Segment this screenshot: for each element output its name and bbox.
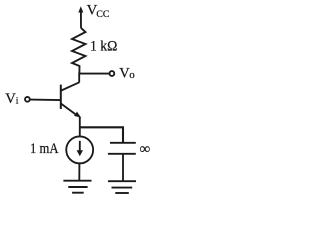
transistor Q1 emitter arrowhead: [74, 112, 81, 118]
ground right line2: [112, 187, 133, 189]
current source I1 circle: [66, 136, 93, 163]
svg-text:CC: CC: [96, 9, 109, 20]
wire capacitor to ground: [122, 154, 124, 181]
ground left line1: [63, 180, 91, 182]
terminal Vi open circle: [25, 97, 30, 102]
terminal Vo open circle: [110, 71, 115, 76]
ground left line2: [68, 186, 87, 188]
resistor R (1 kOhm) zigzag: [72, 28, 86, 66]
wire collector node to Vo terminal: [79, 73, 109, 75]
svg-text:∞: ∞: [140, 141, 151, 158]
wire emitter node to capacitor: [79, 127, 123, 143]
wire emitter vertical to current source: [79, 117, 81, 136]
transistor Q1 base bar: [60, 85, 62, 109]
ground right line3: [115, 192, 129, 194]
svg-text:V: V: [5, 91, 16, 107]
svg-text:i: i: [16, 96, 19, 107]
wire resistor bottom to collector node: [78, 65, 80, 73]
svg-text:o: o: [129, 69, 135, 81]
ground left line3: [72, 192, 84, 194]
power net VCC arrow: [78, 6, 83, 12]
svg-text:1 kΩ: 1 kΩ: [90, 38, 117, 54]
svg-text:1 mA: 1 mA: [30, 141, 59, 157]
current source I1 arrow stem: [79, 141, 81, 151]
current source I1 arrowhead: [77, 150, 83, 156]
transistor Q1 emitter lead: [61, 104, 77, 116]
transistor Q1 collector lead: [61, 82, 79, 90]
wire base from Vi: [30, 99, 60, 102]
wire collector vertical: [78, 73, 80, 83]
capacitor C plate bottom: [108, 153, 136, 155]
capacitor C plate top: [110, 142, 136, 144]
ground right line1: [108, 180, 136, 182]
wire current source to ground: [78, 164, 80, 181]
wire VCC stem: [80, 12, 82, 28]
